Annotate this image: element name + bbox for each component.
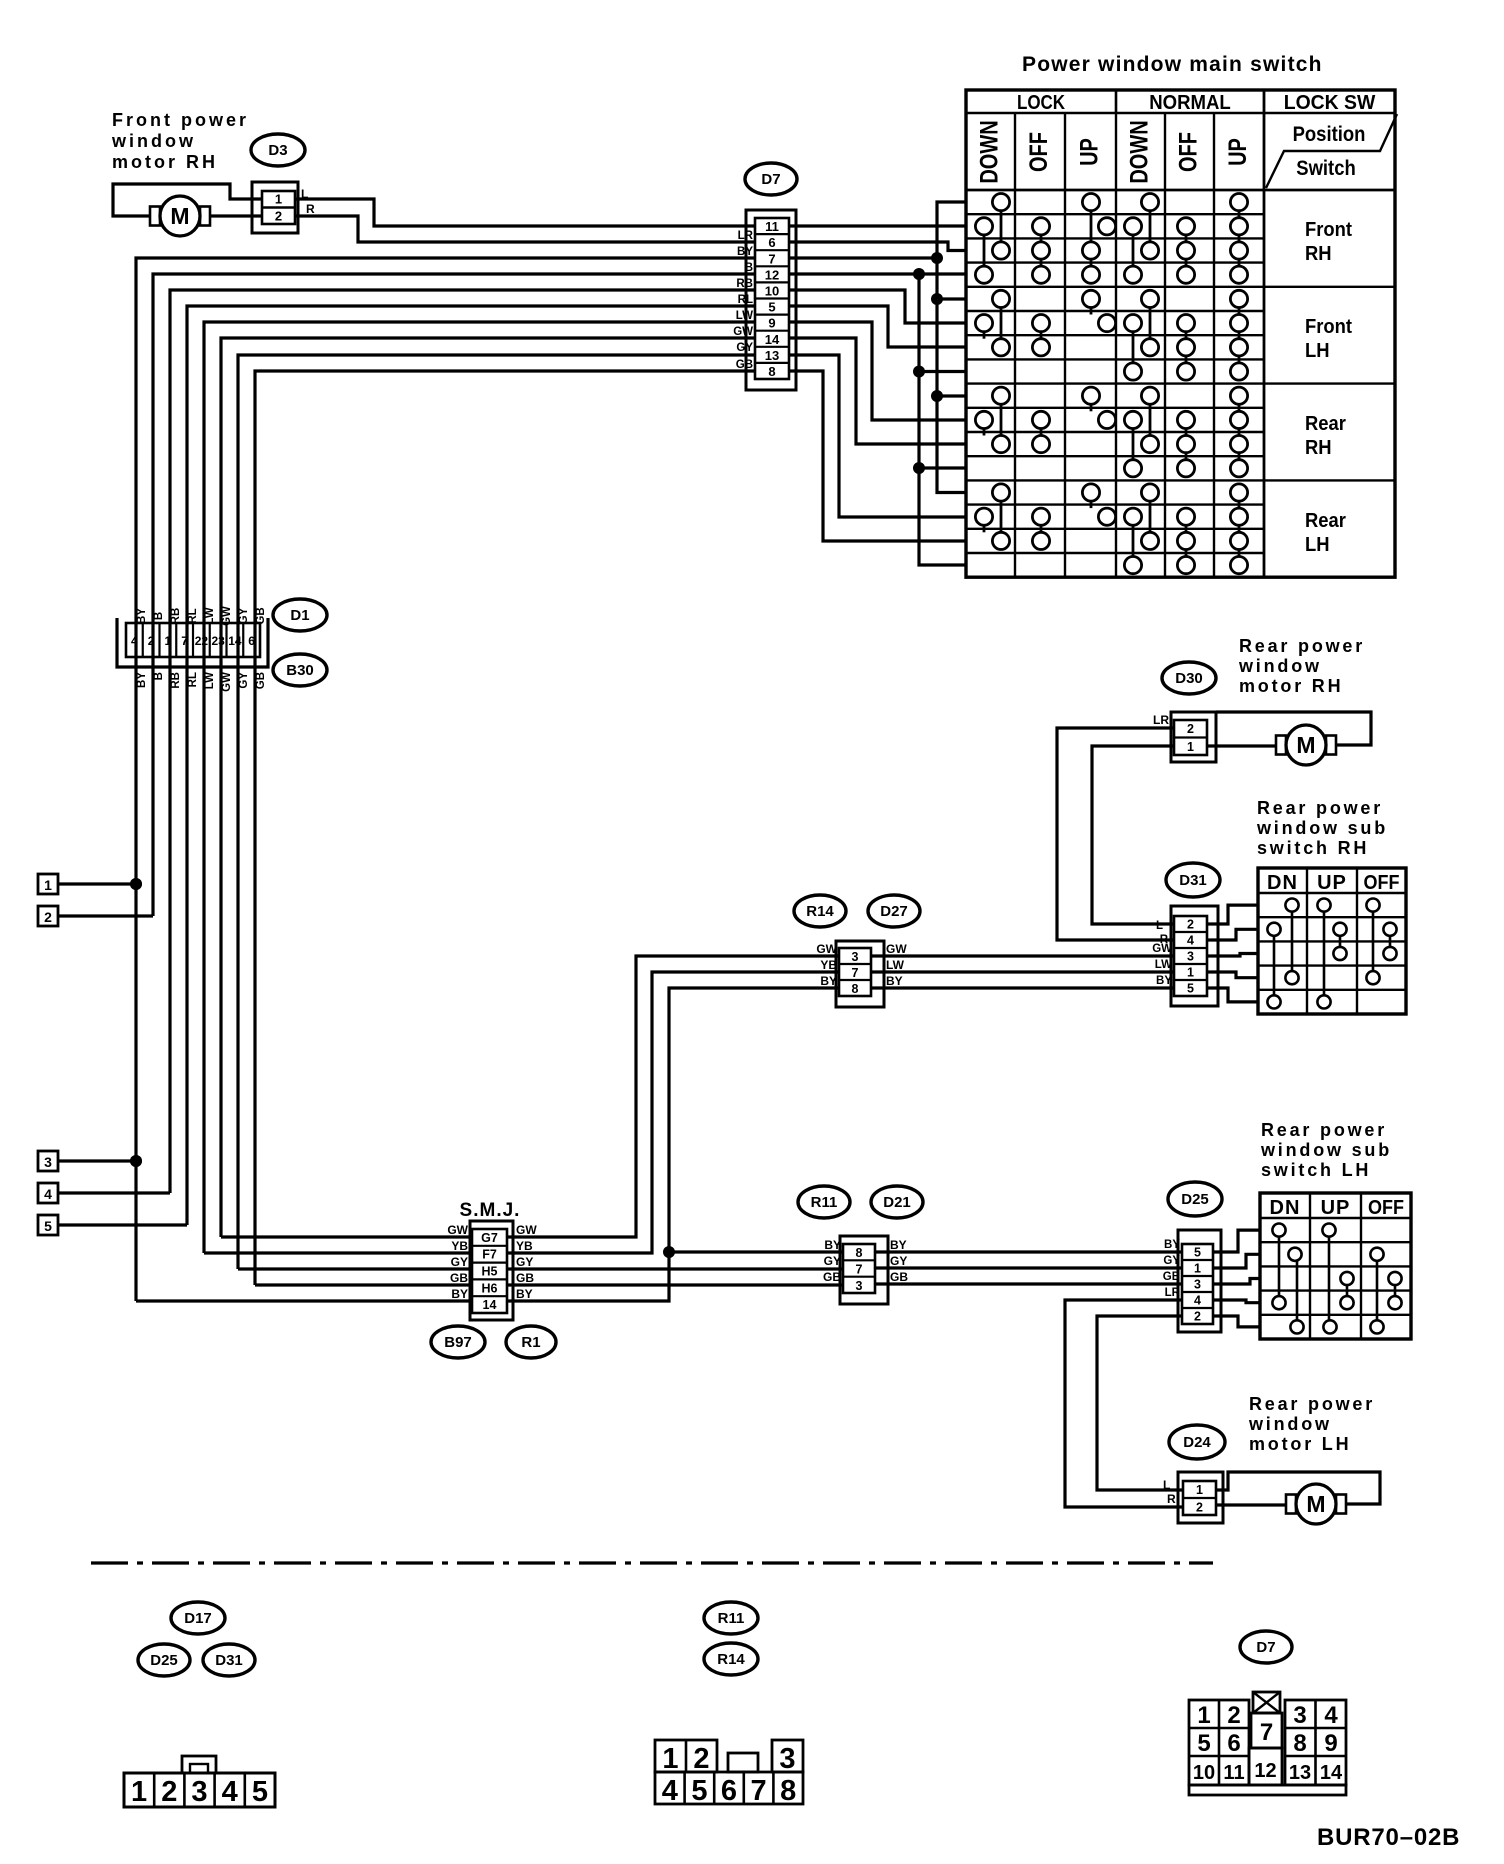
svg-text:GB: GB: [1163, 1271, 1180, 1283]
motor M rear LH: [1286, 1484, 1346, 1524]
svg-text:S.M.J.: S.M.J.: [460, 1200, 521, 1221]
svg-text:3: 3: [1187, 950, 1194, 964]
wire motor-left to D3 pin1 (upper loop): [113, 184, 262, 216]
svg-text:Rear power: Rear power: [1249, 1394, 1375, 1414]
wire BY D21 to D25 pin5: [875, 1250, 1182, 1253]
wire color labels below B30: [136, 672, 267, 692]
svg-text:14: 14: [228, 634, 242, 648]
svg-text:1: 1: [662, 1743, 678, 1775]
svg-text:8: 8: [856, 1246, 863, 1260]
wire D31 pin5 to sub table row5: [1207, 988, 1258, 1002]
label Rear power window sub switch RH: [1256, 798, 1388, 858]
svg-text:GY: GY: [1163, 1255, 1180, 1267]
svg-text:1: 1: [1194, 1262, 1201, 1276]
svg-text:14: 14: [483, 1298, 497, 1312]
svg-text:BY: BY: [516, 1287, 533, 1301]
svg-text:D25: D25: [150, 1652, 178, 1669]
wire motor-right to D3 pin2: [210, 214, 262, 217]
svg-text:switch LH: switch LH: [1261, 1160, 1371, 1180]
svg-text:23: 23: [211, 634, 225, 648]
svg-text:LR: LR: [738, 230, 754, 242]
connector S.M.J. outer housing: [470, 1221, 513, 1320]
svg-text:1: 1: [44, 877, 52, 893]
svg-text:BY: BY: [136, 672, 148, 688]
svg-text:14: 14: [1320, 1762, 1343, 1784]
svg-text:BY: BY: [737, 246, 753, 258]
connector label D31 (view): [203, 1644, 255, 1676]
svg-text:R14: R14: [806, 903, 834, 920]
svg-text:L: L: [1163, 1478, 1170, 1492]
svg-text:DN: DN: [1270, 1197, 1301, 1219]
label Rear power window motor LH: [1248, 1394, 1375, 1454]
wire D7 pin5 to switch row7: [789, 306, 966, 347]
wire GB into S.M.J. H6: [255, 1283, 472, 1286]
svg-text:GB: GB: [736, 359, 753, 371]
svg-text:5: 5: [252, 1776, 268, 1808]
section separator dash-dot line: [91, 1561, 1213, 1564]
svg-text:GY: GY: [238, 607, 250, 624]
svg-text:2: 2: [161, 1776, 177, 1808]
svg-text:D7: D7: [1256, 1639, 1275, 1656]
svg-text:GB: GB: [450, 1271, 468, 1285]
wire D7 pin9 to switch row10: [789, 322, 966, 420]
switch contacts group 1: [975, 194, 1247, 284]
svg-text:LW: LW: [204, 672, 216, 689]
wire D25 pin3 to LH table row3: [1213, 1279, 1260, 1285]
connector label D25: [1168, 1182, 1222, 1216]
svg-text:11: 11: [765, 219, 779, 234]
wire bundle B: D7 pin12 left: [153, 274, 755, 916]
svg-text:2: 2: [275, 209, 282, 224]
svg-text:3: 3: [1194, 1278, 1201, 1292]
svg-text:9: 9: [1324, 1730, 1337, 1757]
wire D7 pin11 to switch row2: [789, 224, 966, 227]
terminal box 1: [38, 874, 58, 894]
svg-text:2: 2: [1187, 722, 1194, 736]
svg-text:5: 5: [768, 300, 775, 315]
connector R14/D27 pin grid: [839, 948, 871, 996]
main switch table frame: [966, 90, 1395, 577]
svg-text:3: 3: [856, 1279, 863, 1293]
svg-text:GY: GY: [824, 1254, 841, 1268]
wire D7 pin6 to switch row3 (jog): [789, 242, 966, 251]
svg-text:GW: GW: [221, 672, 233, 692]
svg-text:3: 3: [1293, 1702, 1306, 1729]
wire D7 pin13 to switch row14: [789, 355, 966, 517]
svg-text:GY: GY: [516, 1255, 533, 1269]
connector D30 pin grid: [1174, 720, 1207, 755]
sub switch LH table frame: [1260, 1193, 1411, 1339]
svg-text:GY: GY: [451, 1255, 468, 1269]
svg-text:R11: R11: [718, 1610, 745, 1627]
wire bundle RB: D7 pin10 left: [170, 290, 755, 1193]
svg-text:9: 9: [768, 316, 775, 331]
svg-text:6: 6: [768, 235, 775, 250]
svg-text:5: 5: [691, 1775, 707, 1807]
svg-text:motor RH: motor RH: [112, 152, 218, 172]
svg-text:Position: Position: [1293, 123, 1366, 146]
svg-text:R14: R14: [717, 1651, 745, 1668]
svg-text:4: 4: [222, 1776, 238, 1808]
svg-text:D30: D30: [1175, 670, 1203, 687]
switch row label Front RH: [1305, 219, 1353, 265]
svg-text:8: 8: [1293, 1730, 1306, 1757]
svg-text:RB: RB: [170, 608, 182, 625]
wire D25 pin4 down to D24 pin2: [1065, 1300, 1183, 1507]
junction on BY wire at node 1: [130, 878, 142, 890]
junction bus A row9: [931, 390, 943, 402]
wire D30 housing to motor right (upper loop): [1216, 712, 1371, 745]
connector label B30: [273, 654, 327, 686]
svg-text:BY: BY: [451, 1287, 468, 1301]
svg-text:BY: BY: [890, 1238, 907, 1252]
svg-text:UP: UP: [1224, 138, 1252, 166]
connector label D31: [1166, 863, 1220, 897]
svg-text:B30: B30: [286, 662, 314, 679]
wire YB into S.M.J. F7: [204, 1251, 472, 1254]
svg-text:GB: GB: [890, 1270, 908, 1284]
wire GB D21 to D25 pin3: [875, 1282, 1182, 1285]
svg-text:RL: RL: [738, 294, 753, 306]
connector label R14: [794, 895, 846, 927]
connector label R11: [798, 1186, 850, 1218]
svg-text:BY: BY: [824, 1238, 841, 1252]
svg-text:11: 11: [1223, 1762, 1244, 1784]
svg-text:G7: G7: [481, 1231, 498, 1245]
wire D31 pin3 to sub table row3: [1207, 954, 1258, 957]
wire terminal 4: [58, 1191, 170, 1194]
svg-text:4: 4: [1324, 1702, 1338, 1729]
svg-text:2: 2: [44, 909, 52, 925]
connector face view 5-pin: [124, 1756, 275, 1808]
connector label D3: [251, 134, 305, 166]
svg-text:R11: R11: [811, 1194, 838, 1211]
wire YB S.M.J. to R14 pin7: [507, 972, 839, 1253]
wire terminal 2: [58, 914, 153, 917]
svg-text:1: 1: [1196, 1483, 1203, 1497]
svg-text:5: 5: [1194, 1246, 1201, 1260]
svg-text:R: R: [306, 202, 315, 216]
svg-text:LH: LH: [1305, 534, 1330, 556]
svg-text:7: 7: [856, 1263, 863, 1277]
junction pin12 bus B start: [913, 268, 925, 280]
svg-text:22: 22: [195, 634, 209, 648]
svg-text:GW: GW: [886, 942, 907, 956]
switch contacts group 4: [975, 484, 1247, 574]
connector R11/D21 outer housing: [840, 1236, 888, 1304]
svg-text:2: 2: [1187, 918, 1194, 932]
svg-text:F7: F7: [482, 1248, 497, 1262]
svg-text:R1: R1: [521, 1334, 540, 1351]
svg-text:OFF: OFF: [1364, 872, 1400, 894]
label LR at D24: [1163, 1478, 1176, 1506]
label Rear power window motor RH: [1238, 636, 1365, 696]
svg-text:12: 12: [1254, 1760, 1276, 1782]
svg-text:7: 7: [852, 966, 859, 980]
svg-text:3: 3: [779, 1743, 795, 1775]
svg-text:5: 5: [44, 1218, 52, 1234]
connector label D7: [745, 163, 797, 195]
svg-text:GY: GY: [238, 672, 250, 689]
svg-text:B: B: [153, 612, 165, 620]
connector D30 outer housing: [1171, 712, 1216, 762]
svg-text:GB: GB: [255, 672, 267, 689]
wire bundle GY: D7 pin13 left: [238, 355, 755, 1269]
connector label B97: [431, 1326, 485, 1358]
svg-text:4: 4: [662, 1775, 678, 1807]
svg-text:14: 14: [765, 332, 780, 347]
svg-text:GW: GW: [816, 942, 837, 956]
svg-text:LW: LW: [886, 958, 905, 972]
wire GY S.M.J. to R11 pin7: [507, 1267, 843, 1270]
bus A vertical: [937, 202, 966, 493]
svg-text:6: 6: [1227, 1730, 1240, 1757]
svg-text:GB: GB: [516, 1271, 534, 1285]
svg-text:GW: GW: [1152, 943, 1172, 955]
connector face view 8-pin: [655, 1740, 803, 1807]
switch contacts group 3: [975, 387, 1247, 477]
svg-text:LW: LW: [204, 607, 216, 624]
svg-text:YB: YB: [451, 1239, 468, 1253]
svg-text:window sub: window sub: [1260, 1140, 1392, 1160]
svg-text:5: 5: [1187, 982, 1194, 996]
wire labels at D21 right: [890, 1238, 908, 1284]
wire GW S.M.J. to R14 pin3: [507, 956, 839, 1237]
svg-text:Rear power: Rear power: [1239, 636, 1365, 656]
svg-text:1: 1: [131, 1776, 147, 1808]
connector label D21: [871, 1186, 923, 1218]
rotated headers DOWN OFF UP: [975, 120, 1251, 183]
wire GW D27 to D31 pin3: [871, 954, 1174, 957]
connector face view D7 14-pin: [1189, 1692, 1346, 1795]
svg-text:YB: YB: [516, 1239, 533, 1253]
junction bus A row5: [931, 293, 943, 305]
svg-text:1: 1: [1197, 1702, 1210, 1729]
svg-text:motor RH: motor RH: [1239, 676, 1343, 696]
terminal box 5: [38, 1215, 58, 1235]
connector label D30: [1162, 662, 1216, 694]
svg-text:B: B: [153, 672, 165, 680]
svg-text:motor LH: motor LH: [1249, 1434, 1351, 1454]
svg-text:Rear power: Rear power: [1257, 798, 1383, 818]
wire D30 pin2 down to D31 pin4: [1057, 728, 1174, 940]
svg-text:D27: D27: [880, 903, 908, 920]
svg-text:LR: LR: [1153, 713, 1169, 727]
connector D3 outer housing: [252, 182, 298, 233]
wire bundle GW: D7 pin14 left: [221, 338, 755, 1237]
wire D30 pin1 to motor left: [1207, 744, 1276, 747]
svg-text:Rear power: Rear power: [1261, 1120, 1387, 1140]
label Rear power window sub switch LH: [1260, 1120, 1392, 1180]
svg-text:UP: UP: [1075, 138, 1103, 166]
wire bundle BY: D7 pin7 run down-left: [136, 258, 755, 1301]
wire terminal 1: [58, 882, 136, 885]
terminal box 2: [38, 906, 58, 926]
svg-text:LR: LR: [1165, 1287, 1181, 1299]
svg-text:GW: GW: [447, 1223, 468, 1237]
switch row label Front LH: [1305, 316, 1353, 362]
connector label D24: [1169, 1425, 1225, 1459]
svg-text:3: 3: [44, 1154, 52, 1170]
connector R14/D27 outer housing: [836, 941, 884, 1007]
connector label R11 (view): [704, 1602, 758, 1634]
svg-text:8: 8: [768, 364, 775, 379]
connector label R14 (view): [704, 1643, 758, 1675]
wire D3 pin1 to D7 pin11: [295, 199, 755, 226]
svg-text:D24: D24: [1183, 1434, 1211, 1451]
svg-text:BUR70–02B: BUR70–02B: [1317, 1824, 1460, 1851]
bus B vertical: [919, 274, 966, 565]
connector label D7 (view): [1240, 1631, 1292, 1663]
wire bundle RL: D7 pin5 left: [187, 306, 755, 1225]
svg-text:7: 7: [1260, 1719, 1273, 1746]
wire D25 pin4 to LH table row4: [1213, 1300, 1260, 1303]
svg-text:7: 7: [768, 251, 775, 266]
svg-text:Rear: Rear: [1305, 413, 1346, 435]
svg-text:D7: D7: [761, 171, 780, 188]
wire D31 pin4 to sub table row2: [1207, 929, 1258, 940]
wire GY into S.M.J. H5: [238, 1267, 472, 1270]
svg-text:Front: Front: [1305, 219, 1353, 241]
svg-text:RH: RH: [1305, 437, 1332, 459]
svg-text:4: 4: [131, 634, 138, 648]
svg-text:M: M: [1296, 732, 1315, 758]
wire color labels at S.M.J. left: [447, 1223, 468, 1301]
svg-text:12: 12: [765, 267, 779, 282]
sub switch RH headers DN UP OFF: [1267, 872, 1399, 894]
sub switch LH contacts: [1272, 1224, 1401, 1334]
wire D24 pin1 to motor right (upper loop): [1216, 1472, 1380, 1504]
svg-text:DOWN: DOWN: [1125, 120, 1153, 183]
sub switch RH table frame: [1258, 868, 1406, 1014]
wire D25 pin5 to LH table row1: [1213, 1230, 1260, 1252]
svg-text:1: 1: [165, 634, 172, 648]
connector S.M.J. pin grid: [472, 1229, 507, 1313]
svg-text:RB: RB: [736, 278, 753, 290]
connector D31 outer housing: [1171, 906, 1218, 1006]
svg-text:D25: D25: [1181, 1191, 1209, 1208]
wire GB S.M.J. to R11 pin3: [507, 1283, 843, 1286]
svg-text:4: 4: [1187, 934, 1194, 948]
svg-text:window: window: [1248, 1414, 1332, 1434]
svg-text:OFF: OFF: [1025, 132, 1053, 172]
wire labels at R11 left: [823, 1238, 841, 1284]
svg-text:GW: GW: [221, 606, 233, 626]
sub switch LH headers DN UP OFF: [1270, 1197, 1404, 1219]
connector D25 pin grid: [1182, 1244, 1213, 1324]
svg-text:OFF: OFF: [1174, 132, 1202, 172]
wire color labels above D1: [136, 606, 267, 626]
wire color labels at S.M.J. right: [516, 1223, 537, 1301]
svg-text:BY: BY: [820, 974, 837, 988]
wire D31 pin1 to sub table row4: [1207, 972, 1258, 978]
bus B stub row12: [919, 466, 966, 469]
connector label D17: [171, 1602, 225, 1634]
svg-text:GW: GW: [733, 326, 753, 338]
junction bus B row12: [913, 462, 925, 474]
wire D7 pin8 to switch row15: [789, 371, 966, 541]
bus B stub row8: [919, 370, 966, 373]
connector D1/B30 outer bracket: [117, 618, 268, 667]
wire color labels at D7 left: [733, 230, 753, 371]
wire D31 pin2 to sub table row1: [1207, 905, 1258, 924]
svg-text:window: window: [111, 131, 196, 151]
junction bus B row8: [913, 366, 925, 378]
svg-text:LOCK SW: LOCK SW: [1284, 92, 1376, 114]
wire GW into S.M.J. G7: [221, 1235, 472, 1238]
svg-text:D1: D1: [290, 607, 309, 624]
connector D7 pin grid: [755, 218, 789, 379]
wire GY D21 to D25 pin1: [875, 1266, 1182, 1269]
connector D3 pin grid: [262, 191, 295, 224]
svg-text:13: 13: [765, 348, 779, 363]
connector D24 pin grid: [1183, 1481, 1216, 1515]
connector label D25 (view): [138, 1644, 190, 1676]
connector label D27: [868, 895, 920, 927]
svg-text:10: 10: [1193, 1762, 1215, 1784]
svg-text:GY: GY: [736, 342, 753, 354]
wire bundle GB: D7 pin8 left: [255, 371, 755, 1285]
connector label D1: [273, 599, 327, 631]
wire D30 pin1 down to D31 pin2: [1092, 746, 1174, 924]
svg-text:BY: BY: [1156, 975, 1172, 987]
svg-text:RL: RL: [187, 608, 199, 623]
svg-text:R: R: [1167, 1492, 1176, 1506]
svg-text:2: 2: [148, 634, 155, 648]
connector R11/D21 pin grid: [843, 1244, 875, 1293]
svg-text:BY: BY: [1164, 1239, 1180, 1251]
svg-text:D21: D21: [883, 1194, 911, 1211]
wire BY D27 to D31 pin5: [871, 986, 1174, 989]
connector D25 outer housing: [1178, 1230, 1221, 1332]
junction pin7 on bus A: [931, 252, 943, 264]
motor M rear RH: [1276, 725, 1336, 765]
wire D25 pin2 to LH table row5: [1213, 1316, 1260, 1327]
svg-text:Power window main switch: Power window main switch: [1022, 53, 1323, 76]
svg-text:window sub: window sub: [1256, 818, 1388, 838]
switch row label Rear RH: [1305, 413, 1346, 459]
svg-text:2: 2: [1194, 1310, 1201, 1324]
svg-text:D31: D31: [1179, 872, 1207, 889]
svg-text:RB: RB: [170, 672, 182, 689]
svg-text:Switch: Switch: [1296, 157, 1356, 180]
wire terminal 3: [58, 1159, 136, 1162]
svg-text:D31: D31: [215, 1652, 243, 1669]
svg-text:4: 4: [44, 1186, 52, 1202]
svg-text:B97: B97: [444, 1334, 472, 1351]
svg-text:8: 8: [852, 982, 859, 996]
svg-text:D17: D17: [184, 1610, 212, 1627]
svg-text:1: 1: [1187, 966, 1194, 980]
wire labels at D31 left: [1152, 920, 1172, 987]
svg-text:RL: RL: [187, 672, 199, 687]
svg-text:GB: GB: [255, 607, 267, 624]
svg-text:6: 6: [721, 1775, 737, 1807]
bus A stub row9: [937, 394, 966, 397]
svg-text:GB: GB: [823, 1270, 841, 1284]
svg-text:BY: BY: [886, 974, 903, 988]
svg-text:LW: LW: [1155, 959, 1172, 971]
connector D24 outer housing: [1178, 1472, 1223, 1523]
svg-text:GW: GW: [516, 1223, 537, 1237]
sub switch RH contacts: [1267, 899, 1396, 1009]
svg-text:B: B: [745, 262, 753, 274]
svg-text:13: 13: [1289, 1762, 1311, 1784]
label Front power window motor RH: [111, 110, 249, 172]
svg-text:7: 7: [751, 1775, 767, 1807]
wire labels at R14 left: [816, 942, 837, 988]
svg-text:2: 2: [1227, 1702, 1240, 1729]
